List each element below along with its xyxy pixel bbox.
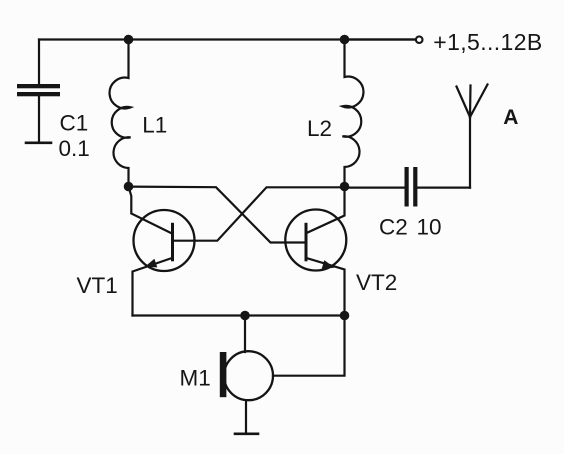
VT1 emitter arrow	[145, 259, 158, 268]
svg-text:A: A	[503, 106, 518, 129]
node top-right (L2/rail)	[340, 35, 350, 45]
inductor L2	[342, 40, 363, 187]
svg-text:L1: L1	[142, 113, 167, 138]
microphone M1 bar	[220, 352, 227, 397]
transistor VT2 circle	[285, 210, 346, 271]
wire VT1 base lead	[129, 187, 173, 234]
node VT2 emitter bus	[340, 311, 350, 321]
wire C2 right to antenna	[418, 187, 470, 189]
capacitor C2 plates	[405, 167, 409, 207]
inductor L1	[110, 40, 131, 187]
wire VT2 emitter lead	[307, 258, 345, 316]
wire power rail to terminal	[345, 38, 415, 40]
wire emitter bus	[133, 314, 345, 316]
transistor VT1 base bar	[171, 224, 174, 259]
transistor VT1 circle	[134, 210, 195, 271]
microphone M1 circle	[224, 351, 273, 400]
node L1 bottom	[124, 182, 134, 192]
transistor VT2 base bar	[305, 224, 308, 259]
ground under C1	[26, 142, 51, 145]
svg-text:C1: C1	[60, 111, 89, 136]
svg-text:C2: C2	[379, 215, 408, 240]
wire L1 node to VT2 base diagonal	[129, 187, 305, 243]
svg-text:+1,5...12В: +1,5...12В	[433, 29, 542, 55]
ground under microphone	[235, 432, 258, 435]
antenna mast	[469, 117, 471, 188]
VT2 emitter arrow	[322, 260, 335, 269]
node top-left (L1/rail)	[124, 35, 134, 45]
wire top rail	[39, 38, 414, 40]
antenna prongs	[457, 85, 488, 118]
terminal circle +V	[416, 36, 423, 43]
node L2 bottom	[340, 182, 350, 192]
wire mic bottom lead	[245, 400, 247, 433]
wire C2 left	[345, 187, 405, 189]
wire C1 top lead	[38, 40, 40, 85]
capacitor C1 plates	[17, 84, 60, 88]
wire VT2 emitter to mic right lead	[273, 316, 345, 376]
node mic tap	[240, 311, 250, 321]
svg-text:10: 10	[417, 215, 442, 240]
svg-text:0.1: 0.1	[59, 136, 90, 161]
wire VT1 emitter lead	[133, 258, 173, 316]
wire VT1 collector to L2 node	[174, 187, 345, 240]
wire C1 bottom lead	[38, 96, 40, 142]
wire VT2 collector lead	[307, 187, 345, 234]
svg-text:M1: M1	[180, 366, 211, 391]
svg-text:VT1: VT1	[77, 273, 118, 298]
svg-text:L2: L2	[307, 116, 332, 141]
svg-text:VT2: VT2	[356, 270, 397, 295]
wire mic top lead	[244, 316, 246, 353]
